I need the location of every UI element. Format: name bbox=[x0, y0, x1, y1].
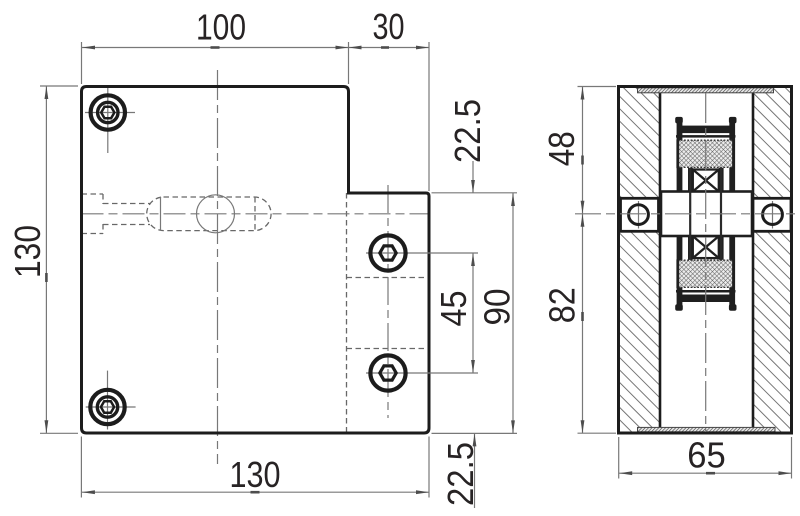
horizontal centerline axle bbox=[575, 213, 800, 215]
vertical centerline right holes bbox=[387, 185, 389, 418]
svg-text:22.5: 22.5 bbox=[447, 99, 488, 163]
flange thin bar bbox=[676, 135, 736, 138]
vertical centerline wheel bbox=[705, 93, 707, 432]
hole R2 crosshair bbox=[366, 372, 478, 374]
hole BL crosshair bbox=[86, 371, 136, 430]
vertical centerline plate bbox=[217, 70, 219, 464]
left wall inner edge bbox=[659, 88, 662, 432]
top cover strip bbox=[638, 88, 774, 93]
hole R2 socket screw bbox=[370, 355, 405, 390]
dim 48/82 extension lines bbox=[578, 87, 617, 434]
dim 130 left extension lines bbox=[40, 86, 78, 433]
hidden slot counterbore dashed bbox=[82, 194, 104, 234]
dim tick 130 left bbox=[45, 273, 48, 282]
dim 82 arrows bbox=[581, 214, 585, 433]
svg-text:130: 130 bbox=[230, 454, 281, 495]
rim side edges bbox=[676, 140, 679, 169]
dim line 130 left bbox=[45, 86, 47, 433]
body fill bbox=[619, 87, 792, 434]
hole R1 crosshair bbox=[366, 252, 478, 254]
axle spacer block bbox=[661, 192, 752, 237]
dim line 65 bbox=[619, 472, 792, 474]
dim tick 48 bbox=[581, 156, 584, 165]
body outline bbox=[619, 87, 792, 434]
dim 65 arrows bbox=[619, 471, 791, 475]
dim tick 130 bottom bbox=[251, 491, 260, 494]
svg-text:130: 130 bbox=[7, 225, 48, 278]
hole TL crosshair bbox=[85, 88, 135, 153]
dim tick 65 bbox=[706, 472, 715, 475]
hidden stadium slot dashed bbox=[147, 197, 271, 231]
dim 22.5 bottom arrow bbox=[473, 433, 477, 446]
wheel top half bbox=[675, 117, 736, 196]
dim 130 bottom extension lines bbox=[81, 437, 429, 498]
bottom cover strip bbox=[638, 427, 776, 431]
flange post caps bbox=[675, 117, 683, 124]
bearing rolling element box bbox=[693, 170, 719, 192]
slot dashed vertical line bbox=[254, 197, 256, 231]
rim hatched section bbox=[677, 140, 734, 167]
dim 45 arrows bbox=[471, 253, 475, 373]
svg-text:82: 82 bbox=[542, 287, 583, 323]
svg-text:48: 48 bbox=[541, 131, 582, 166]
dim 100/30 extension lines bbox=[82, 42, 430, 191]
dim 22.5 bottom line bbox=[474, 433, 476, 508]
hole BL counterbored bbox=[90, 390, 124, 424]
dim 130 bottom arrows bbox=[82, 490, 429, 494]
bottom edge extension line right bbox=[432, 432, 518, 434]
dim line 48/82 bbox=[582, 87, 584, 434]
dim 22.5 top line bbox=[472, 161, 474, 193]
svg-text:100: 100 bbox=[196, 7, 246, 48]
dim 30 arrows bbox=[349, 46, 430, 50]
svg-text:90: 90 bbox=[477, 289, 518, 326]
dim line 100/30 bbox=[82, 47, 430, 49]
svg-text:65: 65 bbox=[687, 435, 726, 476]
left screw housing bbox=[621, 198, 659, 231]
dim tick 82 bbox=[581, 312, 584, 321]
left screw circle bbox=[629, 205, 649, 225]
hidden slot narrow bore dashed bbox=[103, 204, 150, 225]
slot inner vertical line bbox=[160, 197, 162, 231]
bearing inner race posts bbox=[688, 168, 693, 196]
right screw housing bbox=[753, 198, 791, 231]
left screw vertical line bbox=[638, 201, 640, 229]
hole R1 socket screw bbox=[370, 235, 405, 270]
dim line 130 bottom bbox=[81, 491, 429, 493]
dim 90 arrows bbox=[511, 193, 515, 433]
dim 22.5 top arrow bbox=[471, 180, 475, 193]
flange thick bar bbox=[682, 126, 731, 134]
right screw vertical line bbox=[772, 201, 774, 229]
plate outline bbox=[82, 87, 430, 434]
wheel bottom half (mirror) bbox=[675, 232, 736, 311]
hidden notch vertical line bbox=[346, 193, 348, 432]
svg-text:45: 45 bbox=[433, 291, 474, 327]
right wall inner edge bbox=[752, 88, 755, 432]
right wall hatch bbox=[754, 88, 791, 432]
horizontal centerline slot bbox=[82, 213, 430, 215]
svg-text:30: 30 bbox=[373, 6, 405, 47]
dim ticks top bbox=[211, 46, 390, 49]
dim 130 left arrows bbox=[45, 86, 49, 433]
slot through-hole circle bbox=[197, 195, 235, 233]
flange posts bbox=[677, 119, 683, 196]
dim 48 arrows bbox=[581, 87, 585, 214]
hidden rail line upper bbox=[347, 277, 430, 279]
left wall hatch bbox=[620, 88, 660, 432]
dim 65 extension lines bbox=[619, 437, 792, 479]
svg-text:22.5: 22.5 bbox=[440, 442, 481, 506]
step edge extension line bbox=[432, 192, 518, 194]
dim 45 line bbox=[472, 253, 474, 373]
dim 100 arrows bbox=[82, 46, 349, 50]
hole TL counterbored bbox=[91, 95, 125, 129]
hidden rail line lower bbox=[347, 348, 430, 350]
axle inner sleeve lines bbox=[689, 168, 691, 260]
right screw circle bbox=[763, 205, 783, 225]
dim 90 line bbox=[512, 193, 514, 433]
